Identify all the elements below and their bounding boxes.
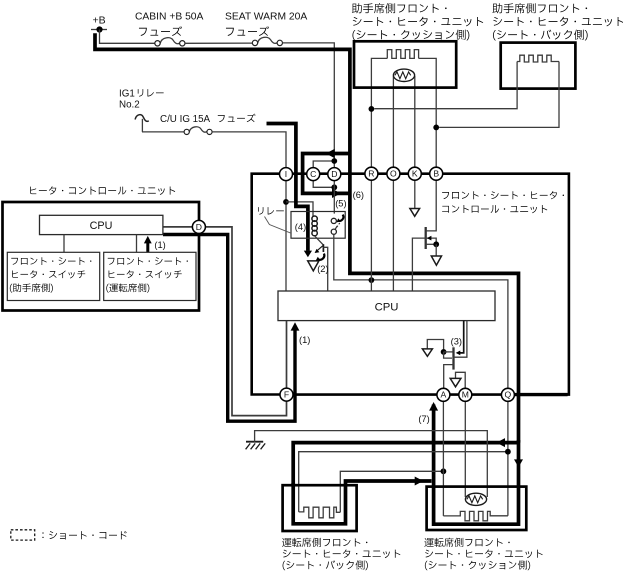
CPU box control unit: [40, 215, 163, 234]
wire thick branch left y442: [293, 443, 518, 485]
relay contact terminal upper: [331, 218, 336, 223]
label driver back unit: [282, 538, 400, 570]
wire jumper C-D top: [313, 161, 334, 168]
connector pin C: [307, 168, 320, 181]
relay coil (4): [312, 216, 317, 236]
heater element passenger back: [517, 55, 559, 62]
label driver cushion unit: [424, 538, 542, 570]
junction dot lower FET drain: [441, 349, 447, 355]
svg-text:D: D: [196, 222, 202, 232]
wire passenger back left lead: [374, 62, 517, 109]
wire source to ground: [435, 244, 437, 256]
unit box passenger back: [501, 43, 576, 89]
unit box driver cushion: [427, 487, 527, 530]
relay contact blade dashed: [337, 223, 340, 227]
label front seat heater control unit: [442, 191, 564, 213]
wire coil tail diagonal: [315, 236, 324, 245]
relay contact terminal lower: [331, 229, 336, 234]
relay IG1 contact squiggle: [135, 115, 149, 132]
wire left box wave-right lead y471: [340, 471, 443, 512]
connector pin A: [437, 388, 450, 401]
drain stub lower FET: [444, 352, 452, 358]
relay contact blade: [335, 226, 338, 230]
label passenger cushion unit: [352, 3, 483, 40]
wire CPU to left switch: [63, 235, 65, 253]
source line lower FET to A-line: [444, 365, 454, 389]
wire passenger back right lead: [439, 62, 559, 128]
wire thick IG1 output to relay (4): [267, 124, 308, 251]
connector pin D: [192, 220, 205, 233]
svg-text:(6): (6): [353, 190, 364, 200]
wire fuse to pin I and CPU (x=286): [212, 132, 286, 291]
wire thick (1) control unit to CPU: [163, 235, 295, 422]
body arrow line lower FET to CPU: [456, 321, 464, 356]
thermistor passenger cushion: [393, 69, 414, 81]
junction dot bottom jumper: [331, 184, 337, 190]
relay IG1 label: [119, 89, 164, 111]
svg-text:F: F: [284, 390, 289, 400]
arrow up (1) into CPU: [291, 322, 300, 330]
svg-text:(1): (1): [154, 240, 165, 250]
connector pin R: [365, 167, 378, 180]
wire +B to fuse (thin): [100, 30, 155, 44]
ground arrow under K: [410, 209, 420, 217]
label relay katakana: [258, 207, 284, 215]
svg-text:D: D: [331, 169, 337, 179]
connector pin I: [280, 168, 293, 181]
connector pin Q: [501, 388, 514, 401]
heater element passenger cushion: [387, 50, 418, 59]
connector pin B: [430, 167, 443, 180]
body arrow upper FET: [427, 236, 432, 241]
svg-text:(1): (1): [299, 335, 310, 345]
arrow (1) switch to CPU: [144, 236, 152, 252]
junction dot A-line y471: [441, 468, 447, 474]
arrow down on x518: [514, 459, 523, 467]
emitter diagonal with arrow: [315, 245, 324, 253]
wire thick left box loop: [293, 481, 431, 524]
svg-text:I: I: [285, 169, 287, 179]
relay box: [291, 212, 345, 239]
svg-text:K: K: [412, 169, 418, 179]
svg-text:O: O: [390, 169, 397, 179]
wire (2) to CPU: [323, 247, 327, 291]
wire A-line down into cushion heater: [442, 401, 444, 516]
ground left of lower FET: [422, 349, 432, 356]
wire dot to relay coil top: [286, 202, 313, 216]
wire contact output to Q-line: [334, 234, 508, 516]
svg-text:CPU: CPU: [375, 302, 399, 314]
transistor channel bar lower FET: [452, 347, 454, 369]
ground under M hook: [450, 378, 461, 386]
connector pin M: [459, 388, 472, 401]
fuse SEAT WARM 20A: [252, 37, 282, 45]
callout line relay: [265, 217, 292, 234]
bus loop through connectors: [252, 174, 569, 395]
legend short-code box: [11, 530, 35, 540]
connector pin D: [328, 168, 341, 181]
label C/U IG 15A fuse: [160, 114, 256, 125]
wire M-line down to thermistor: [464, 401, 466, 497]
source line upper FET: [426, 243, 437, 245]
svg-text:(5): (5): [335, 199, 346, 209]
pin bar (2): [322, 244, 324, 252]
wire D-line to F: [163, 227, 287, 416]
wire CPU to right switch: [136, 235, 138, 253]
svg-text:Q: Q: [505, 390, 512, 400]
heater element driver back: [299, 507, 341, 518]
thermistor driver cushion: [465, 493, 486, 505]
ground under upper FET: [431, 256, 441, 265]
svg-text:(4): (4): [295, 222, 306, 232]
svg-text:(7): (7): [418, 414, 429, 424]
relay contact (5) hook arrow: [337, 215, 344, 223]
M ground hook: [456, 372, 466, 388]
wire fuse to node D (thin drop at x=334): [283, 43, 335, 168]
wire thick loop around C and D: [303, 154, 350, 194]
label fuse-1 katakana: [139, 26, 182, 36]
connector pin F: [280, 388, 293, 401]
heater control unit box: [3, 202, 200, 311]
wire K-line: [414, 76, 416, 208]
wire heater-L lead to R-line to CPU: [371, 58, 387, 291]
arrow down into relay ground: [304, 251, 312, 258]
svg-text:CABIN +B 50A: CABIN +B 50A: [135, 12, 204, 23]
bus thick segment Q to corner: [505, 393, 568, 396]
label switch driver: [106, 257, 188, 293]
label passenger back unit: [492, 3, 623, 40]
svg-text:B: B: [433, 169, 439, 179]
junction dot top jumper: [331, 158, 337, 164]
wire O-line thermistor left lead: [392, 76, 394, 291]
junction dot upper FET source: [433, 241, 439, 247]
arrow up (7): [429, 402, 438, 411]
arrow left on y442: [496, 438, 505, 447]
wire heater-R lead to B to FET drain: [419, 58, 437, 231]
svg-text:+B: +B: [93, 15, 106, 27]
legend text: [42, 531, 126, 539]
label heater control unit: [30, 186, 175, 195]
arrow right on y481: [415, 477, 424, 486]
svg-text:(2): (2): [317, 264, 328, 274]
wire drain loop with ground lower FET: [427, 340, 443, 350]
svg-text:C/U IG 15A: C/U IG 15A: [160, 114, 211, 125]
connector pin K: [408, 167, 421, 180]
switch box driver: [104, 252, 196, 300]
label switch passenger: [10, 257, 92, 293]
fuse CABIN +B 50A: [155, 38, 185, 46]
wire left box wave-left lead y451: [299, 452, 508, 512]
unit box driver back: [283, 485, 357, 531]
ground under relay coil: [308, 261, 319, 271]
svg-text:CPU: CPU: [90, 220, 113, 232]
arrow left on C/D loop top: [326, 149, 335, 158]
arrow right (6) on C/D loop bottom: [332, 189, 341, 198]
label fuse-2 katakana: [226, 26, 269, 36]
connector pin O: [387, 167, 400, 180]
wire thick into right box down: [434, 405, 519, 525]
fuse C/U IG 15A: [184, 127, 212, 135]
wire thick main feed +B bus: [95, 33, 519, 442]
svg-text:SEAT WARM 20A: SEAT WARM 20A: [225, 12, 307, 23]
junction dot I-line: [283, 199, 289, 205]
unit box passenger cushion: [354, 41, 456, 87]
junction dot heater-L y109: [369, 106, 375, 112]
svg-text:C: C: [310, 169, 316, 179]
ground chassis symbol: [246, 442, 266, 450]
svg-text:A: A: [441, 390, 447, 400]
CPU box: [278, 291, 495, 321]
wire jumper C-D bottom: [313, 180, 334, 187]
wire D to relay contact: [333, 180, 335, 213]
wire between fuses: [185, 42, 252, 44]
svg-text:R: R: [368, 169, 374, 179]
svg-text:(3): (3): [451, 337, 462, 347]
svg-text:No.2: No.2: [119, 100, 140, 111]
gate line upper FET from CPU: [412, 238, 436, 291]
gate line lower FET from CPU: [454, 321, 467, 358]
hook arrow (2): [316, 254, 325, 261]
node +B terminal: [91, 15, 107, 33]
wire ground to thermistor right lead: [255, 431, 488, 497]
transistor channel bar upper FET: [425, 227, 427, 249]
junction dot heater-R y127: [433, 125, 439, 131]
svg-text:M: M: [462, 390, 469, 400]
drain line lower FET: [444, 351, 454, 353]
heater element driver cushion: [443, 511, 508, 520]
junction dot R-line y280: [369, 277, 375, 283]
svg-text:IG1: IG1: [119, 89, 135, 100]
switch box passenger: [7, 252, 99, 300]
wire relay to fuse: [142, 131, 184, 133]
junction dot Q-line y451: [505, 449, 511, 455]
